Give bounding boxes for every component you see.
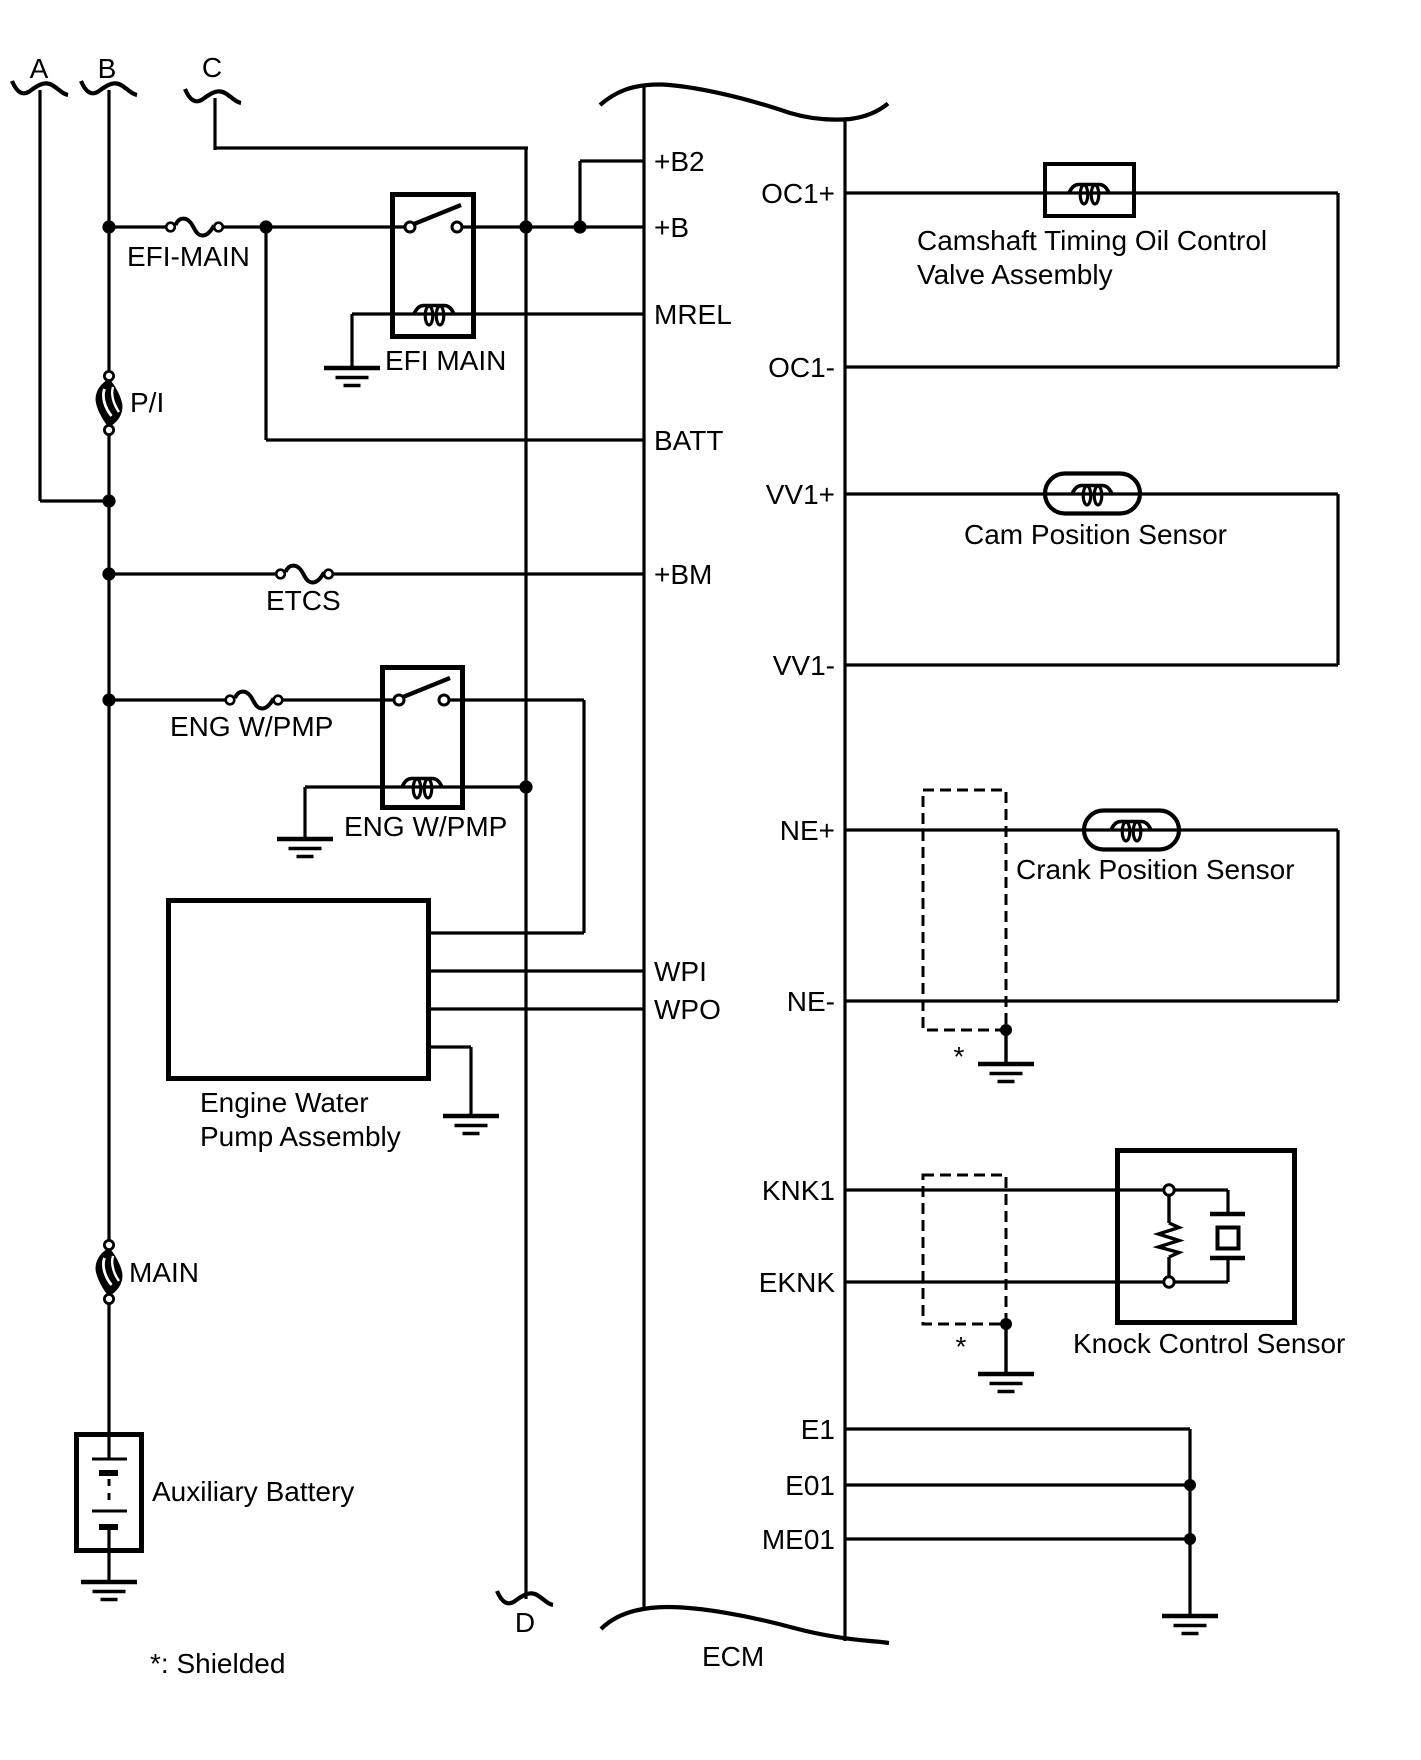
wire pump ground stub [429, 1045, 471, 1048]
wire coil ground riser [303, 787, 306, 839]
wire +B2 stub [580, 159, 645, 162]
knock piezo bottom lead [1226, 1260, 1229, 1282]
svg-text:ETCS: ETCS [266, 585, 341, 616]
wire relay output down [582, 700, 585, 933]
ECM left wall [642, 84, 645, 1608]
junction B bus at A join [102, 494, 115, 507]
svg-text:*: * [954, 1041, 965, 1072]
wire shield NE ground riser [1004, 1030, 1007, 1064]
svg-text:C: C [202, 52, 222, 83]
fuse ENG W/PMP [170, 692, 333, 742]
svg-text:EFI MAIN: EFI MAIN [385, 345, 506, 376]
wire B bus upper [107, 90, 110, 376]
svg-text:E01: E01 [785, 1470, 835, 1501]
pickup coil crank position sensor [1084, 811, 1179, 850]
wire MREL ground riser [350, 314, 353, 368]
svg-text:D: D [515, 1607, 535, 1638]
wire +BM from bus [109, 572, 277, 575]
ground pump assembly [443, 1116, 499, 1134]
wire OC1- [845, 365, 1338, 368]
wire relay output right [448, 698, 584, 701]
ground shield NE [978, 1064, 1034, 1082]
svg-text:BATT: BATT [654, 425, 723, 456]
svg-text:B: B [98, 53, 117, 84]
svg-text:*: Shielded: *: Shielded [150, 1648, 285, 1679]
wire +BM fuse to ECM [332, 572, 645, 575]
relay ENG W/PMP box [383, 668, 463, 808]
solenoid box camshaft timing valve [1045, 164, 1134, 216]
wire +B from bus to fuse [109, 225, 166, 228]
fuse ETCS [266, 566, 341, 616]
wire E ground bus [1188, 1429, 1191, 1616]
svg-text:E1: E1 [801, 1414, 835, 1445]
ECM right wall [843, 119, 846, 1641]
node C connector break [185, 52, 241, 103]
wire C/D vertical bus [524, 148, 527, 1599]
wire NE- [845, 999, 1338, 1002]
junction on B at +B line [102, 220, 115, 233]
svg-text:WPI: WPI [654, 956, 707, 987]
node A connector break [12, 53, 68, 95]
svg-text:Valve Assembly: Valve Assembly [917, 259, 1113, 290]
wire BATT to ECM [266, 438, 645, 441]
wire MREL line [352, 312, 645, 315]
relay EFI MAIN switch contacts [405, 222, 415, 232]
wire ENG W/PMP from bus [109, 698, 227, 701]
shield NE dashed [923, 790, 1006, 1030]
svg-text:+B2: +B2 [654, 146, 705, 177]
svg-text:A: A [30, 53, 49, 84]
svg-text:OC1+: OC1+ [761, 178, 835, 209]
battery plates [92, 1459, 127, 1527]
wire NE loop right [1336, 830, 1339, 1001]
relay ENG W/PMP switch blade [403, 678, 450, 697]
wire WPI [429, 969, 645, 972]
wire fuse to relay switch [223, 225, 406, 228]
wire fuse to ENG relay [281, 698, 395, 701]
svg-text:Crank Position Sensor: Crank Position Sensor [1016, 854, 1295, 885]
junction ME01 [1184, 1533, 1196, 1545]
svg-text:+BM: +BM [654, 559, 712, 590]
junction E01 [1184, 1479, 1196, 1491]
wire C drop [213, 98, 216, 150]
svg-text:NE+: NE+ [780, 815, 835, 846]
knock terminal top [1164, 1185, 1174, 1195]
wire B bus lower into battery [107, 1298, 110, 1460]
node B connector break [81, 53, 137, 95]
junction B bus at +BM [102, 567, 115, 580]
svg-text:Engine Water: Engine Water [200, 1087, 369, 1118]
relay ENG W/PMP switch contacts [394, 695, 404, 705]
shield KNK dashed [923, 1175, 1006, 1324]
svg-text:Pump Assembly: Pump Assembly [200, 1121, 401, 1152]
knock piezo top lead [1174, 1188, 1228, 1191]
wire OC1 loop right [1336, 193, 1339, 367]
ground ECM E lines [1162, 1616, 1218, 1634]
relay EFI MAIN box [393, 195, 474, 337]
svg-text:MAIN: MAIN [129, 1257, 199, 1288]
wire VV1+ [845, 492, 1338, 495]
junction C bus at +B [519, 220, 532, 233]
wire ENG relay coil line [305, 785, 526, 788]
junction coil line on C bus [519, 780, 532, 793]
wire BATT riser [264, 227, 267, 440]
sensor knock control box [1118, 1151, 1295, 1323]
wire +B2 riser [578, 161, 581, 227]
wire WPO [429, 1007, 645, 1010]
ground shield KNK [978, 1374, 1034, 1392]
relay ENG W/PMP coil [402, 779, 442, 799]
node D connector break [497, 1591, 553, 1638]
junction B bus at ENG W/PMP [102, 693, 115, 706]
svg-text:VV1+: VV1+ [766, 479, 835, 510]
fusible link P/I [97, 371, 165, 434]
wire KNK1 [845, 1188, 1165, 1191]
svg-text:KNK1: KNK1 [762, 1175, 835, 1206]
ECM bottom break wave [601, 1607, 889, 1643]
svg-text:Cam Position Sensor: Cam Position Sensor [964, 519, 1227, 550]
junction shield NE [1000, 1024, 1012, 1036]
block Engine Water Pump Assembly [169, 901, 429, 1079]
ground battery [81, 1582, 137, 1600]
svg-text:ENG W/PMP: ENG W/PMP [170, 711, 333, 742]
wire battery to ground [107, 1527, 110, 1582]
wire E1 [845, 1427, 1190, 1430]
knock resistor leads [1167, 1195, 1170, 1223]
wire EKNK [845, 1280, 1165, 1283]
svg-text:*: * [956, 1331, 967, 1362]
svg-text:EKNK: EKNK [759, 1267, 836, 1298]
battery Auxiliary Battery box [77, 1435, 142, 1551]
wire B bus middle [107, 430, 110, 1245]
svg-text:EFI-MAIN: EFI-MAIN [127, 241, 250, 272]
svg-text:WPO: WPO [654, 994, 721, 1025]
wire relay output to pump [429, 931, 584, 934]
relay EFI MAIN coil [414, 306, 454, 326]
piezo element [1210, 1214, 1245, 1258]
wire NE+ [845, 828, 1338, 831]
wire +B relay to ECM [460, 225, 645, 228]
svg-text:P/I: P/I [130, 387, 164, 418]
wire E01 [845, 1483, 1190, 1486]
wire shield KNK ground riser [1004, 1324, 1007, 1374]
svg-text:Auxiliary Battery: Auxiliary Battery [152, 1476, 354, 1507]
ground ENG W/PMP relay [277, 839, 333, 857]
wire OC1+ [845, 191, 1338, 194]
knock terminal bottom [1164, 1277, 1174, 1287]
svg-text:NE-: NE- [787, 986, 835, 1017]
wire A to B join [40, 499, 107, 502]
wire ME01 [845, 1537, 1190, 1540]
svg-text:ME01: ME01 [762, 1524, 835, 1555]
svg-text:Camshaft Timing Oil Control: Camshaft Timing Oil Control [917, 225, 1267, 256]
fuse EFI-MAIN [127, 219, 250, 272]
relay EFI MAIN switch blade [414, 205, 461, 224]
junction shield KNK [1000, 1318, 1012, 1330]
ECM top break wave [600, 84, 888, 119]
solenoid coil OC1 [1069, 185, 1109, 205]
wire pump ground riser [469, 1047, 472, 1116]
svg-text:ENG W/PMP: ENG W/PMP [344, 811, 507, 842]
ground EFI MAIN relay [324, 368, 380, 386]
wire A vertical bus [38, 90, 41, 501]
svg-text:Knock Control Sensor: Knock Control Sensor [1073, 1328, 1345, 1359]
fusible link MAIN [97, 1240, 199, 1303]
wire VV1 loop right [1336, 494, 1339, 665]
svg-text:VV1-: VV1- [773, 650, 835, 681]
resistor knock [1159, 1223, 1180, 1257]
pickup coil cam position sensor [1045, 474, 1140, 514]
svg-text:OC1-: OC1- [768, 352, 835, 383]
svg-text:+B: +B [654, 212, 689, 243]
wire C horizontal feed [215, 146, 528, 149]
wire VV1- [845, 663, 1338, 666]
junction BATT tap [259, 220, 272, 233]
svg-text:ECM: ECM [702, 1641, 764, 1672]
svg-text:MREL: MREL [654, 299, 732, 330]
junction +B2 tap [573, 220, 586, 233]
